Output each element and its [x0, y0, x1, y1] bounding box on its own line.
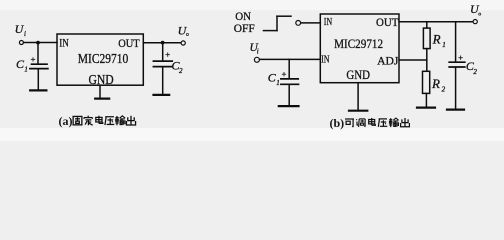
- svg-text:(a): (a): [59, 114, 73, 128]
- svg-text:R: R: [432, 31, 441, 46]
- wire R1 top lead (circuit b): [426, 22, 428, 29]
- ground R2 (circuit b): [417, 106, 435, 108]
- wire R1 to R2 (circuit b): [426, 49, 428, 72]
- svg-text:i: i: [24, 30, 26, 38]
- svg-text:R: R: [431, 76, 440, 91]
- pin GND (circuit b): [346, 67, 370, 82]
- svg-text:OFF: OFF: [234, 21, 255, 35]
- ground C2 (circuit b): [447, 108, 464, 110]
- ground GND pin (circuit b): [349, 110, 367, 112]
- label ON (circuit b): [235, 9, 251, 23]
- label C1 plus polarity (circuit a): [31, 57, 35, 61]
- wire C1 upper lead (circuit a): [37, 43, 39, 64]
- pin OUT (circuit a): [118, 36, 140, 50]
- wire C2 upper lead (circuit a): [162, 43, 164, 61]
- resistor R1 (circuit b): [423, 28, 430, 48]
- svg-text:2: 2: [473, 68, 477, 76]
- pin ADJ (circuit b): [377, 53, 399, 67]
- svg-text:GND: GND: [346, 67, 370, 82]
- node Ui input terminal (circuit b): [254, 57, 259, 62]
- label Uo (circuit b): [470, 2, 480, 16]
- svg-text:2: 2: [179, 67, 183, 75]
- svg-text:1: 1: [24, 65, 28, 73]
- node Uo output terminal (circuit b): [473, 20, 477, 24]
- wire ADJ pin (circuit b): [399, 59, 427, 61]
- svg-text:IN: IN: [321, 54, 329, 66]
- label Ui (circuit b): [250, 42, 259, 55]
- svg-text:OUT: OUT: [118, 36, 140, 50]
- label R1 value (circuit b): [432, 31, 446, 49]
- svg-text:ADJ: ADJ: [377, 53, 399, 67]
- label OFF (circuit b): [234, 21, 255, 35]
- op-amp U2 regulator box MIC29712 (circuit b): [320, 14, 399, 83]
- label C1 value (circuit a): [16, 57, 28, 73]
- wire C2 lower lead (circuit a): [162, 67, 164, 94]
- svg-text:MIC29710: MIC29710: [78, 51, 129, 66]
- svg-text:2: 2: [442, 86, 446, 94]
- capacitor C1 (circuit a): [30, 64, 48, 68]
- svg-text:U: U: [178, 24, 188, 38]
- label C1 value (circuit b): [268, 70, 280, 86]
- label MIC29712 part number: [334, 36, 383, 51]
- svg-text:IN: IN: [59, 36, 69, 50]
- wire GND pin lead (circuit a): [99, 85, 101, 98]
- label Uo (circuit a): [178, 24, 188, 38]
- caption (b) adjustable voltage output: [330, 116, 410, 130]
- label C1 plus polarity (circuit b): [282, 72, 286, 76]
- op-amp U1 regulator box MIC29710 (circuit a): [57, 34, 143, 85]
- ground C1 (circuit a): [30, 89, 46, 91]
- switch ON/OFF step waveform (circuit b): [264, 16, 292, 30]
- wire C1 upper lead (circuit b): [288, 59, 290, 78]
- capacitor C2 (circuit b): [449, 62, 465, 67]
- wire switch to IN1 (circuit b): [301, 22, 321, 24]
- node switch terminal (circuit b): [296, 21, 301, 26]
- ground C1 (circuit b): [279, 105, 299, 107]
- label Uo subscript o (circuit a): [186, 33, 188, 35]
- wire C2 upper lead (circuit b): [455, 22, 457, 62]
- junction C2 node (circuit a): [161, 41, 165, 45]
- wire Ui to IN2 (circuit b): [260, 58, 321, 60]
- label Uo subscript o (circuit b): [479, 13, 481, 15]
- svg-text:1: 1: [276, 79, 280, 87]
- label Ui (circuit a): [15, 22, 26, 38]
- svg-text:MIC29712: MIC29712: [334, 36, 383, 51]
- label C2 value (circuit b): [466, 59, 478, 76]
- wire OUT to Uo (circuit a): [143, 42, 181, 44]
- pin IN (circuit a): [59, 36, 69, 50]
- svg-text:OUT: OUT: [376, 15, 399, 29]
- svg-text:IN: IN: [324, 16, 332, 28]
- pin GND (circuit a): [89, 72, 114, 87]
- ground C2 (circuit a): [154, 94, 170, 96]
- wire GND pin lead (circuit b): [357, 83, 359, 110]
- label C2 plus polarity (circuit a): [166, 52, 170, 56]
- pin IN2 (circuit b): [321, 54, 329, 66]
- pin IN1 (circuit b): [324, 16, 332, 28]
- capacitor C1 (circuit b): [281, 79, 299, 84]
- wire R2 lower lead (circuit b): [425, 93, 427, 107]
- svg-text:(b): (b): [330, 116, 345, 130]
- wire C2 lower lead (circuit b): [455, 68, 457, 109]
- caption (a) fixed voltage output: [59, 114, 136, 128]
- svg-text:1: 1: [442, 41, 446, 49]
- svg-text:i: i: [257, 47, 259, 55]
- junction C1 node (circuit a): [36, 41, 40, 45]
- svg-text:GND: GND: [89, 72, 114, 87]
- node Ui input terminal (circuit a): [19, 41, 23, 45]
- label MIC29710 part number: [78, 51, 129, 66]
- wire OUT to Uo (circuit b): [399, 21, 473, 23]
- resistor R2 (circuit b): [423, 71, 430, 93]
- wire C1 lower lead (circuit a): [37, 69, 39, 89]
- wire Ui to IN (circuit a): [24, 42, 57, 44]
- label C2 plus polarity (circuit b): [458, 56, 462, 60]
- label R2 value (circuit b): [431, 76, 446, 94]
- label C2 value (circuit a): [172, 59, 184, 76]
- pin OUT (circuit b): [376, 15, 399, 29]
- ground GND pin (circuit a): [95, 97, 109, 99]
- wire C1 lower lead (circuit b): [288, 85, 290, 105]
- capacitor C2 (circuit a): [153, 61, 172, 67]
- node Uo output terminal (circuit a): [181, 41, 185, 45]
